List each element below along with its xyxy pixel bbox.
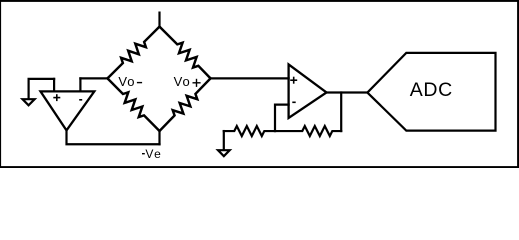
svg-text:Vo: Vo xyxy=(174,74,191,89)
svg-text:Vo: Vo xyxy=(118,74,135,89)
svg-text:ADC: ADC xyxy=(410,79,453,101)
svg-text:Ve: Ve xyxy=(145,147,162,161)
